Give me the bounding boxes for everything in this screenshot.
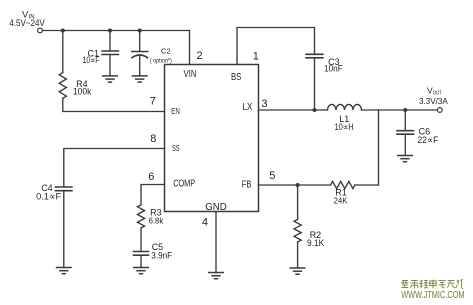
- svg-text:8: 8: [150, 133, 156, 145]
- svg-text:C2: C2: [161, 47, 171, 56]
- svg-text:22∝F: 22∝F: [417, 135, 438, 145]
- svg-text:10∝H: 10∝H: [335, 122, 354, 132]
- svg-text:GND: GND: [205, 202, 227, 213]
- svg-text:6.8k: 6.8k: [149, 216, 164, 226]
- svg-text:5: 5: [269, 170, 275, 182]
- svg-text:VIN: VIN: [184, 69, 197, 80]
- svg-text:COMP: COMP: [173, 179, 195, 190]
- svg-text:6: 6: [148, 171, 154, 183]
- svg-text:LX: LX: [243, 102, 253, 113]
- svg-text:10∝F: 10∝F: [83, 55, 100, 65]
- svg-text:( option*): ( option*): [150, 58, 172, 65]
- svg-text:9.1K: 9.1K: [307, 238, 324, 248]
- svg-text:2: 2: [197, 50, 203, 62]
- svg-text:4.5V~24V: 4.5V~24V: [9, 18, 45, 28]
- svg-text:100k: 100k: [73, 86, 92, 96]
- svg-text:24K: 24K: [334, 195, 348, 205]
- svg-text:3.3V/3A: 3.3V/3A: [419, 96, 448, 106]
- svg-text:3.9nF: 3.9nF: [151, 250, 172, 260]
- svg-text:1: 1: [253, 50, 259, 62]
- svg-text:3: 3: [261, 98, 267, 110]
- svg-text:10nF: 10nF: [324, 64, 343, 74]
- svg-text:4: 4: [202, 217, 208, 229]
- svg-text:SS: SS: [172, 144, 180, 153]
- svg-text:0.1∝F: 0.1∝F: [36, 191, 61, 201]
- svg-text:EN: EN: [171, 106, 180, 116]
- svg-text:FB: FB: [242, 180, 252, 191]
- svg-text:7: 7: [150, 95, 156, 107]
- svg-text:BS: BS: [231, 72, 242, 83]
- svg-text:WWW.JTMIC.COM: WWW.JTMIC.COM: [401, 289, 464, 301]
